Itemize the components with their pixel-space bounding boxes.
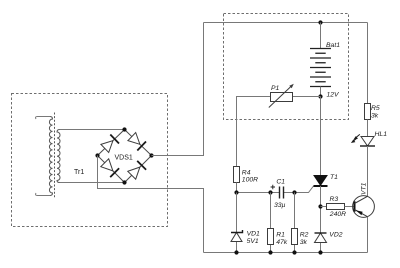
node R4 junction <box>234 190 238 194</box>
bridge VDS1 diamond edges <box>98 130 152 183</box>
LED HL1 arrows <box>356 134 360 137</box>
battery Bat1 plates <box>310 49 331 87</box>
node bridge right <box>149 153 153 157</box>
wire emitter to rail <box>367 217 369 253</box>
wire primary top lead <box>36 117 51 120</box>
thyristor T1 <box>314 176 327 186</box>
dashed box left module <box>12 94 168 227</box>
node C1 right junction <box>292 190 296 194</box>
svg-text:R4: R4 <box>242 169 251 176</box>
node battery bottom <box>318 94 322 98</box>
node VD1 bottom <box>234 250 238 254</box>
svg-text:R3: R3 <box>330 196 339 203</box>
resistor R4 <box>234 167 240 183</box>
wire P1 left lead <box>237 97 271 167</box>
capacitor C1 <box>279 187 281 199</box>
zener diode VD1 <box>231 233 242 242</box>
wire thyristor anode <box>320 97 322 176</box>
svg-text:Bat1: Bat1 <box>326 42 340 49</box>
wire R1 branch <box>270 193 272 253</box>
node C1 left junction <box>268 190 272 194</box>
wire top rail <box>204 22 368 24</box>
potentiometer P1 arrow <box>269 85 292 107</box>
node VD2 bottom <box>318 250 322 254</box>
bridge diode bottom-left <box>101 159 113 171</box>
wire R3 left lead <box>321 206 327 208</box>
transformer Tr1 primary winding <box>49 117 52 196</box>
wire primary bottom lead <box>36 193 51 196</box>
diode VD2 <box>315 233 327 243</box>
resistor R1 <box>268 229 274 245</box>
bridge diode bottom-right <box>128 167 140 179</box>
svg-text:5V1: 5V1 <box>247 238 259 245</box>
svg-text:3k: 3k <box>371 112 379 119</box>
svg-text:R1: R1 <box>276 232 285 239</box>
node R3 junction <box>318 204 322 208</box>
svg-text:R2: R2 <box>300 232 309 239</box>
resistor R2 <box>292 229 298 245</box>
svg-text:33µ: 33µ <box>274 202 286 209</box>
node bridge left <box>95 153 99 157</box>
svg-text:T1: T1 <box>330 174 338 181</box>
node R2 bottom <box>292 250 296 254</box>
svg-text:VT1: VT1 <box>360 182 367 195</box>
node bridge bottom <box>122 180 126 184</box>
svg-text:C1: C1 <box>276 179 285 186</box>
label C1 plus <box>271 185 275 189</box>
wire battery bottom lead <box>320 87 322 97</box>
bridge diode top-left <box>101 141 113 153</box>
node R1 bottom <box>268 250 272 254</box>
wire P1 right lead <box>293 96 321 98</box>
bridge diode top-right <box>128 133 140 145</box>
svg-text:VD2: VD2 <box>329 232 342 239</box>
svg-text:240R: 240R <box>329 211 346 218</box>
node battery top <box>318 20 322 24</box>
svg-text:Tr1: Tr1 <box>74 169 84 176</box>
svg-text:47k: 47k <box>276 239 288 246</box>
wire thyristor cathode <box>320 186 322 253</box>
svg-text:VD1: VD1 <box>247 231 260 238</box>
potentiometer P1 body <box>271 93 293 102</box>
svg-text:P1: P1 <box>271 85 280 92</box>
wire LED to transistor <box>367 146 369 196</box>
svg-text:VDS1: VDS1 <box>115 155 133 162</box>
svg-text:R5: R5 <box>371 105 380 112</box>
wire VD1 branch <box>236 193 238 253</box>
LED HL1 <box>361 137 374 147</box>
wire bottom rail <box>204 252 368 254</box>
svg-text:3k: 3k <box>300 239 308 246</box>
wire gate rail <box>237 186 314 193</box>
wire R2 branch <box>294 193 296 253</box>
wire R5 top lead <box>367 23 369 104</box>
node bridge top <box>122 127 126 131</box>
svg-text:HL1: HL1 <box>375 131 388 138</box>
wire secondary bottom to bridge <box>60 182 125 184</box>
resistor R5 <box>365 104 371 120</box>
svg-text:100R: 100R <box>242 176 258 183</box>
wire R4 bottom to junction <box>236 183 238 193</box>
wire battery top lead <box>320 23 322 49</box>
dashed box battery module <box>224 14 349 120</box>
wire R3 right lead <box>345 206 355 208</box>
wire bridge minus output <box>98 156 204 253</box>
svg-text:12V: 12V <box>327 92 341 99</box>
transformer Tr1 secondary winding <box>57 130 60 183</box>
wire bridge plus output <box>152 23 204 156</box>
transformer Tr1 core <box>54 113 56 199</box>
transistor VT1 <box>353 196 375 218</box>
wire secondary top to bridge <box>60 129 125 131</box>
resistor R3 <box>327 204 345 210</box>
wire R5 to LED <box>367 120 369 137</box>
